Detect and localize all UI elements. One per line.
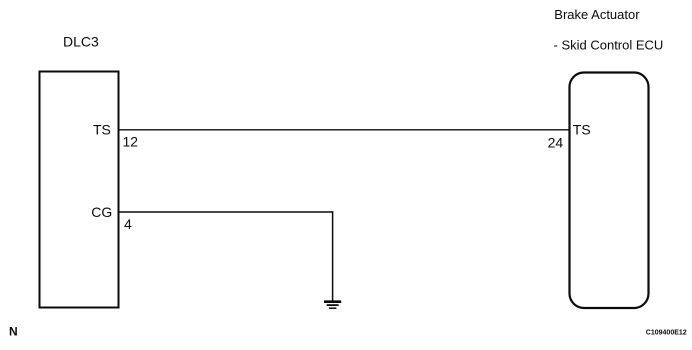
label Brake Actuator (554, 7, 640, 22)
pin TS (DLC3 side) (93, 122, 111, 138)
pin CG (DLC3 side) (91, 204, 112, 220)
wire TS: DLC3 pin 12 to ECU pin 24 (119, 129, 569, 131)
wire CG horizontal segment (119, 211, 333, 213)
connector DLC3 box (40, 72, 119, 308)
svg-text:12: 12 (123, 134, 139, 150)
svg-text:DLC3: DLC3 (63, 33, 99, 49)
svg-text:4: 4 (124, 216, 132, 232)
svg-text:TS: TS (93, 122, 111, 138)
svg-text:N: N (9, 324, 18, 338)
svg-text:24: 24 (548, 134, 564, 150)
svg-text:CG: CG (91, 204, 112, 220)
svg-text:- Skid Control ECU: - Skid Control ECU (554, 37, 664, 52)
note N (9, 324, 18, 338)
figure code C109400E12 (646, 329, 687, 336)
ground (324, 302, 341, 309)
pin number 24 (548, 134, 564, 150)
wire CG vertical segment to ground (332, 211, 334, 301)
pin number 4 (124, 216, 132, 232)
pin TS (ECU side) (573, 122, 591, 138)
pin number 12 (123, 134, 139, 150)
label DLC3 (63, 33, 99, 49)
svg-text:Brake Actuator: Brake Actuator (554, 7, 640, 22)
label - Skid Control ECU (554, 37, 664, 52)
svg-text:C109400E12: C109400E12 (646, 329, 687, 336)
ECU box (Brake Actuator - Skid Control ECU) (570, 73, 649, 309)
svg-text:TS: TS (573, 122, 591, 138)
